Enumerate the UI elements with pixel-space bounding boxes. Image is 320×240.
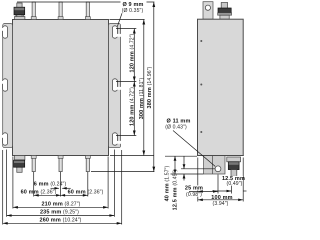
label 12.5 mm right [224, 176, 244, 181]
dimension 6mm blade thickness [51, 187, 71, 190]
extension line foot bottom [171, 173, 204, 175]
keyhole slot mid-right [112, 79, 121, 91]
extension line hole center horizontal [181, 168, 215, 170]
svg-text:60 mm (2.36"): 60 mm (2.36") [21, 189, 57, 195]
keyhole slot bottom-right [112, 133, 121, 145]
dimension 40mm vertical [174, 156, 177, 174]
side view bottom foot [204, 156, 225, 175]
left mounting rail [3, 24, 13, 148]
side view body [197, 19, 244, 155]
extension line 300 top [110, 19, 145, 21]
dimension 120mm chain vertical [133, 29, 136, 136]
side view top bracket [203, 2, 213, 20]
terminal blade bottom 3 [85, 156, 90, 172]
extension lines body corners [13, 157, 108, 209]
terminal bolt top front [14, 3, 25, 20]
terminal blade bottom 1 [31, 156, 36, 172]
svg-text:210 mm (8.27"): 210 mm (8.27") [41, 201, 80, 207]
label 25 mm [187, 185, 203, 190]
dimension 12.5mm right [212, 190, 247, 193]
svg-text:(Ø 0.35"): (Ø 0.35") [122, 8, 144, 14]
terminal blade top 3 [85, 2, 90, 20]
dimension 60mm pole pitch line [34, 194, 88, 197]
dimension 210mm [13, 206, 108, 209]
dimension 260mm [3, 222, 122, 225]
extension lines blades bottom [34, 172, 88, 197]
svg-text:380 mm (14.96"): 380 mm (14.96") [147, 66, 153, 108]
dimension 12.5mm vertical left [183, 156, 186, 180]
svg-text:(3.94"): (3.94") [213, 201, 229, 207]
svg-text:260 mm (10.24"): 260 mm (10.24") [40, 217, 82, 223]
svg-text:300 mm (11.81"): 300 mm (11.81") [139, 78, 145, 120]
terminal bolt bottom front [14, 156, 25, 173]
dimension 235mm [7, 214, 115, 217]
dimension 25mm [189, 190, 218, 193]
front view body [13, 20, 109, 156]
extension line 120 mid [116, 81, 136, 83]
svg-text:120 mm (4.72"): 120 mm (4.72") [129, 33, 135, 72]
svg-text:(0.98"): (0.98") [186, 192, 202, 198]
side view bottom bolt [227, 157, 241, 176]
dimension 100mm [198, 199, 243, 202]
dimension 380mm vertical [152, 2, 155, 172]
extension line side body bottom left [165, 155, 197, 157]
svg-text:(Ø 0.43"): (Ø 0.43") [165, 125, 187, 131]
dimension 300mm vertical [142, 20, 145, 156]
extension lines slot centers [7, 150, 115, 217]
svg-text:40 mm (1.57"): 40 mm (1.57") [164, 165, 170, 201]
svg-text:235 mm (9.25"): 235 mm (9.25") [40, 210, 79, 216]
svg-text:12.5 mm (0.49"): 12.5 mm (0.49") [173, 169, 179, 210]
terminal blade bottom 2 [58, 156, 63, 172]
extension line 300 bottom [110, 155, 154, 157]
label 100 mm [209, 195, 235, 200]
extension line side body left edge down [197, 158, 199, 202]
extension line bolt center down [231, 178, 233, 194]
extension line 120 top [116, 28, 136, 30]
svg-text:100 mm: 100 mm [211, 195, 232, 201]
extension line hole center down [217, 175, 219, 194]
right mounting rail [109, 24, 121, 148]
svg-text:120 mm (4.72"): 120 mm (4.72") [129, 87, 135, 126]
terminal blade top 1 [31, 2, 36, 20]
extension line side body right edge down [242, 158, 244, 202]
svg-text:25 mm: 25 mm [185, 186, 203, 192]
extension line 120 bottom [116, 135, 136, 137]
terminal blade top 2 [58, 2, 63, 20]
svg-text:(0.49"): (0.49") [227, 181, 243, 187]
keyhole slot top-left [2, 26, 8, 38]
side view top bolt [218, 3, 232, 20]
label dia 9 mm [117, 1, 146, 27]
svg-text:60 mm (2.36"): 60 mm (2.36") [68, 189, 104, 195]
extension line 380 top [17, 1, 154, 3]
label dia 11 mm [165, 119, 215, 167]
svg-text:6 mm (0.24"): 6 mm (0.24") [34, 182, 67, 188]
keyhole slot bottom-left [2, 133, 8, 145]
keyhole slot mid-left [2, 79, 8, 91]
extension line 380 bottom [91, 171, 154, 173]
keyhole slot top-right [112, 26, 121, 38]
extension lines tab outer edges [3, 150, 122, 225]
